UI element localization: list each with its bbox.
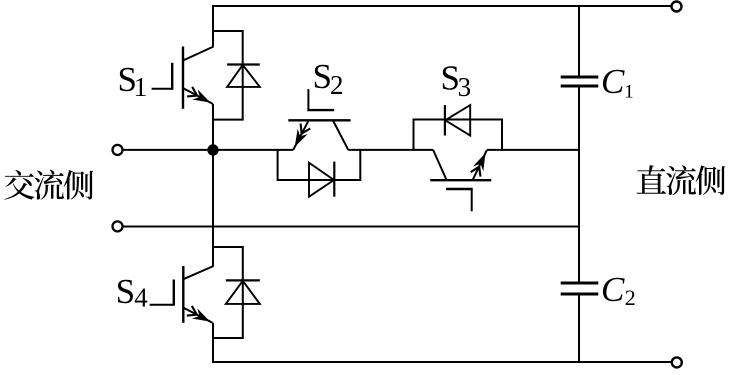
- svg-text:3: 3: [458, 72, 472, 102]
- svg-text:4: 4: [134, 283, 148, 313]
- svg-text:1: 1: [624, 82, 634, 103]
- svg-text:2: 2: [625, 285, 636, 310]
- svg-text:C: C: [601, 270, 625, 309]
- svg-text:C: C: [601, 62, 625, 101]
- svg-text:2: 2: [330, 70, 344, 100]
- svg-text:1: 1: [134, 72, 148, 102]
- svg-text:S: S: [116, 272, 135, 311]
